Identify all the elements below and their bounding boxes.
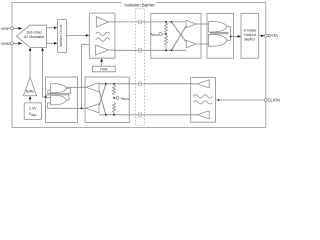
svg-text:Interface Circuit: Interface Circuit — [59, 25, 63, 47]
svg-text:2.5V: 2.5V — [29, 106, 37, 110]
svg-text:Isolation Barrier: Isolation Barrier — [124, 2, 155, 7]
svg-text:DATA: DATA — [268, 33, 279, 38]
svg-text:ΔΣ Modulator: ΔΣ Modulator — [24, 35, 45, 39]
svg-text:Buffer: Buffer — [244, 37, 255, 42]
svg-text:VINN: VINN — [1, 42, 10, 46]
svg-text:CLKIN: CLKIN — [268, 97, 280, 102]
svg-text:VINP: VINP — [1, 27, 10, 31]
svg-text:Buffer: Buffer — [26, 90, 36, 94]
svg-text:PDR: PDR — [100, 67, 108, 71]
